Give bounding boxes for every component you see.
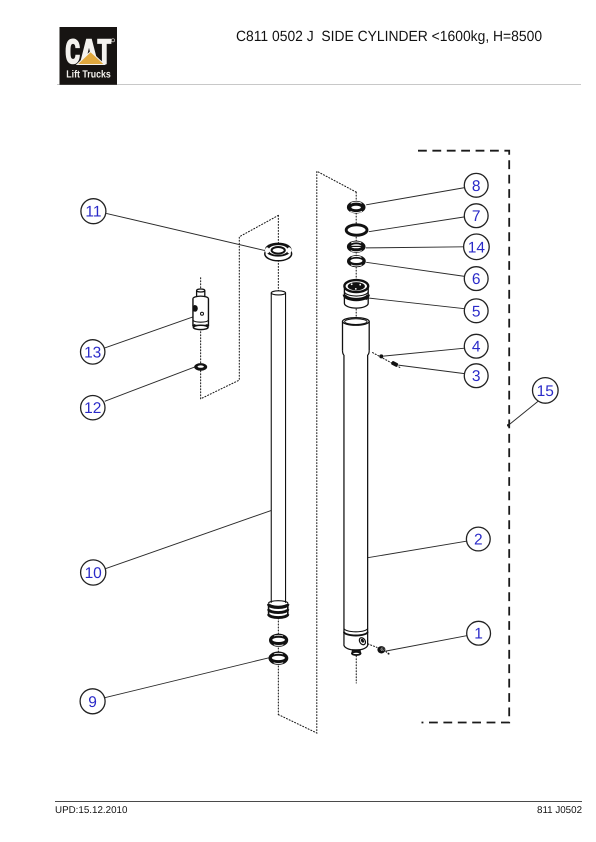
svg-text:12: 12 [84,400,101,417]
svg-text:11: 11 [85,204,101,221]
svg-text:9: 9 [88,694,97,711]
svg-text:10: 10 [85,565,103,582]
svg-text:Lift Trucks: Lift Trucks [66,69,111,80]
svg-text:2: 2 [474,532,483,549]
svg-text:6: 6 [472,271,481,288]
svg-text:5: 5 [472,303,481,320]
svg-text:1: 1 [474,626,483,643]
svg-text:8: 8 [472,178,481,195]
svg-text:15: 15 [537,383,554,400]
svg-text:14: 14 [468,239,486,256]
svg-text:7: 7 [472,208,481,225]
svg-text:3: 3 [472,368,481,385]
svg-text:13: 13 [84,344,101,361]
svg-text:4: 4 [472,339,481,356]
